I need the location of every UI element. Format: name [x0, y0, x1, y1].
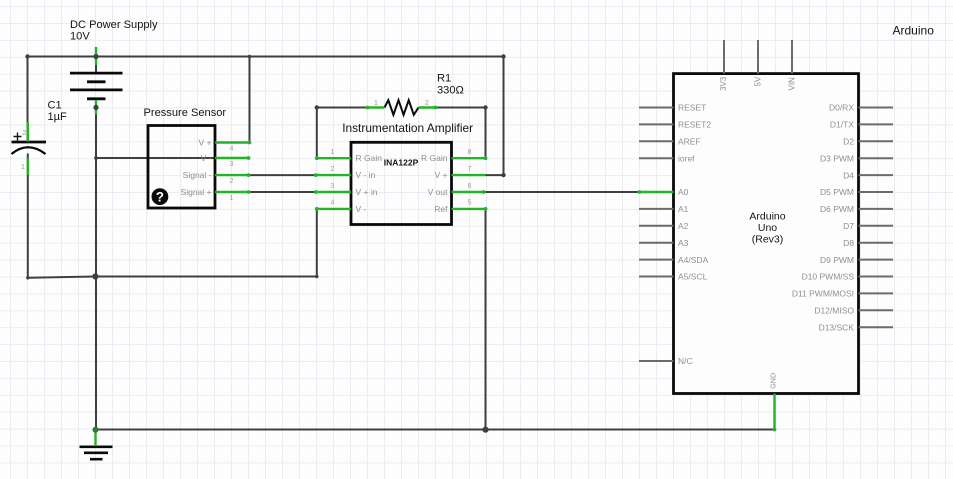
- arduino GND end dot: [773, 428, 777, 432]
- battery label DC Power Supply 10V: [70, 19, 158, 42]
- amp left pin labels: [356, 153, 383, 214]
- svg-text:A5/SCL: A5/SCL: [678, 272, 708, 282]
- svg-text:Ref: Ref: [434, 204, 448, 214]
- svg-text:Signal -: Signal -: [183, 170, 212, 180]
- svg-text:4: 4: [331, 200, 335, 207]
- svg-text:Arduino: Arduino: [893, 24, 935, 38]
- svg-text:5: 5: [468, 200, 472, 207]
- wire battery bottom down to ground rail: [95, 100, 97, 430]
- wire top rail: [28, 56, 504, 58]
- svg-text:5V: 5V: [753, 76, 762, 86]
- junction dot battery bottom: [93, 105, 98, 110]
- sensor pin V- end dot: [247, 156, 251, 160]
- svg-text:D8: D8: [843, 238, 854, 248]
- amp pin 1 wire end dot: [315, 156, 319, 160]
- svg-text:RESET: RESET: [678, 103, 706, 113]
- sensor question icon: [152, 188, 169, 205]
- arduino top pin 5V: [757, 40, 759, 74]
- svg-text:Instrumentation Amplifier: Instrumentation Amplifier: [342, 121, 473, 135]
- svg-text:8: 8: [468, 149, 472, 156]
- wire amp Ref down to ground rail: [485, 209, 487, 430]
- svg-text:ioref: ioref: [678, 153, 695, 163]
- wire sensor Signal- to amp V-in: [249, 174, 316, 176]
- svg-text:2: 2: [23, 130, 27, 137]
- svg-text:D0/RX: D0/RX: [829, 103, 854, 113]
- amp pin 8 wire end dot: [484, 156, 488, 160]
- svg-text:D13/SCK: D13/SCK: [819, 322, 855, 332]
- amp pin 5 green: [452, 208, 486, 210]
- svg-text:1µF: 1µF: [48, 111, 68, 123]
- ground pin green: [94, 431, 96, 447]
- svg-text:6: 6: [468, 183, 472, 190]
- capacitor C1 bottom arc: [12, 147, 46, 154]
- svg-text:3: 3: [331, 183, 335, 190]
- amp pin 4 green: [316, 208, 352, 210]
- svg-text:A1: A1: [678, 204, 689, 214]
- svg-text:D3 PWM: D3 PWM: [820, 153, 854, 163]
- wire resistor right to amp pin 8: [485, 108, 487, 159]
- amp right pin labels: [421, 153, 448, 214]
- junction dot top-left corner: [25, 54, 29, 58]
- sensor pin numbers: [230, 146, 234, 203]
- sensor V+ wire end dot: [248, 141, 252, 145]
- amp pin 8 green: [452, 157, 486, 159]
- resistor pin 1 end dot: [366, 106, 370, 110]
- svg-text:A2: A2: [678, 221, 689, 231]
- ground symbol: [80, 447, 113, 459]
- wire amp V out to arduino A0: [484, 191, 640, 193]
- battery pin green bottom: [95, 100, 97, 115]
- wire ground rail: [96, 429, 775, 431]
- capacitor label C1 1uF: [48, 100, 68, 124]
- svg-text:D4: D4: [843, 170, 854, 180]
- resistor pin 2 end dot: [434, 106, 438, 110]
- svg-text:Pressure Sensor: Pressure Sensor: [144, 107, 227, 119]
- amp pin 5 wire end dot: [484, 207, 488, 211]
- resistor R1 zigzag: [385, 100, 419, 115]
- arduino right pin stubs: [859, 108, 894, 328]
- amp pin 2 green: [316, 174, 352, 176]
- sensor pin Signal+ end dot: [247, 190, 251, 194]
- junction dot resistor right: [483, 105, 487, 109]
- svg-text:A3: A3: [678, 238, 689, 248]
- svg-text:D1/TX: D1/TX: [830, 120, 854, 130]
- svg-text:V out: V out: [428, 187, 448, 197]
- svg-text:C1: C1: [48, 100, 62, 112]
- amp pin 1 green: [316, 157, 352, 159]
- svg-text:3: 3: [230, 161, 234, 168]
- svg-text:N/C: N/C: [678, 356, 693, 366]
- junction dot C1 bottom bend: [26, 276, 29, 279]
- svg-text:D10 PWM/SS: D10 PWM/SS: [802, 272, 855, 282]
- battery pin green top: [95, 47, 97, 65]
- svg-text:7: 7: [468, 166, 472, 173]
- wire battery top pin: [95, 47, 97, 73]
- svg-text:?: ?: [156, 189, 164, 204]
- svg-text:D12/MISO: D12/MISO: [814, 306, 854, 316]
- pressure sensor box: [148, 126, 215, 209]
- arduino right pin labels: [792, 103, 855, 333]
- amp pin 4 wire end dot: [315, 207, 319, 211]
- arduino center label: [749, 211, 785, 246]
- wire top rail to sensor V+: [249, 57, 251, 143]
- amp pin 3 end dot: [314, 190, 318, 194]
- svg-text:R Gain: R Gain: [421, 153, 448, 163]
- wire battery to sensor V-: [96, 157, 249, 159]
- amp pin 7 green: [452, 174, 486, 176]
- junction dot amp V- bend: [315, 275, 318, 278]
- svg-text:(Rev3): (Rev3): [752, 234, 784, 246]
- svg-text:4: 4: [230, 146, 234, 153]
- sensor pin labels: [181, 138, 212, 198]
- capacitor pin green bottom: [27, 159, 29, 176]
- arduino GND pin green: [773, 394, 775, 430]
- amp pin 6 end dot: [482, 190, 486, 194]
- svg-text:AREF: AREF: [678, 137, 701, 147]
- wire vertical up to amp pin 4: [316, 209, 318, 277]
- wire resistor left lead: [317, 107, 368, 109]
- junction dot ref ground: [482, 427, 488, 433]
- svg-text:D2: D2: [843, 137, 854, 147]
- sensor pin V+ green: [215, 141, 250, 143]
- amp pin 6 green: [452, 191, 484, 193]
- arduino pin A0 end dot: [638, 190, 642, 194]
- amp pin 2 end dot: [314, 173, 318, 177]
- svg-text:R Gain: R Gain: [356, 153, 383, 163]
- svg-text:330Ω: 330Ω: [437, 85, 464, 97]
- svg-text:2: 2: [425, 100, 429, 107]
- sensor pin Signal- end dot: [247, 173, 251, 177]
- svg-text:Uno: Uno: [758, 222, 777, 234]
- svg-text:Arduino: Arduino: [749, 211, 785, 223]
- wire resistor left to amp pin 1: [316, 108, 318, 159]
- junction dot ground rail left: [93, 427, 99, 433]
- svg-text:1: 1: [21, 164, 25, 171]
- svg-text:2: 2: [230, 178, 234, 185]
- svg-text:V +: V +: [435, 170, 448, 180]
- svg-text:RESET2: RESET2: [678, 120, 711, 130]
- svg-text:1: 1: [230, 195, 234, 202]
- arduino box: [674, 74, 859, 394]
- svg-text:V -: V -: [201, 153, 212, 163]
- svg-text:INA122P: INA122P: [384, 158, 419, 168]
- instrumentation amplifier box U1: [351, 142, 452, 224]
- junction dot battery V- branch: [94, 156, 98, 160]
- wire C1 bottom to battery ground wire: [28, 277, 96, 278]
- arduino top pin 3V3: [723, 40, 725, 74]
- svg-text:V -: V -: [356, 204, 367, 214]
- svg-text:D11 PWM/MOSI: D11 PWM/MOSI: [792, 289, 854, 299]
- svg-text:DC Power Supply: DC Power Supply: [70, 19, 158, 31]
- junction dot resistor left: [315, 105, 319, 109]
- junction dot amp V+ elbow: [501, 173, 505, 177]
- amp pin numbers right: [468, 149, 472, 207]
- capacitor pin green top: [27, 122, 29, 142]
- wire left vertical upper (to C1): [27, 56, 29, 142]
- resistor pin 1 green: [367, 106, 385, 108]
- capacitor plus sign: [14, 133, 22, 141]
- junction dot top rail right corner: [501, 54, 505, 58]
- wire bottom horizontal to amp V-: [95, 276, 316, 278]
- sensor pin V- green: [215, 157, 249, 159]
- sensor pin Signal- green: [215, 174, 249, 176]
- amp pin 3 green: [316, 191, 352, 193]
- svg-text:V +: V +: [199, 138, 212, 148]
- svg-text:D9 PWM: D9 PWM: [820, 255, 854, 265]
- arduino pin A0 green: [639, 191, 674, 193]
- svg-text:2: 2: [331, 166, 335, 173]
- svg-text:V - in: V - in: [356, 170, 376, 180]
- capacitor C1 top plate: [12, 141, 47, 144]
- svg-text:10V: 10V: [70, 30, 90, 42]
- svg-text:A4/SDA: A4/SDA: [678, 255, 709, 265]
- arduino left pin stubs: [639, 108, 674, 362]
- sensor pin Signal+ green: [215, 191, 249, 193]
- wire top rail down to amp V+ pin 7: [503, 57, 505, 176]
- svg-text:1: 1: [331, 149, 335, 156]
- wire resistor right lead: [435, 107, 486, 109]
- resistor pin 2 green: [419, 106, 437, 108]
- svg-text:D5 PWM: D5 PWM: [820, 187, 854, 197]
- junction dot battery top: [93, 54, 98, 59]
- svg-text:VIN: VIN: [787, 77, 796, 91]
- svg-text:1: 1: [374, 100, 378, 107]
- svg-text:GND: GND: [768, 373, 777, 389]
- svg-text:A0: A0: [678, 187, 689, 197]
- amp pin numbers left: [331, 149, 335, 207]
- svg-text:Signal +: Signal +: [181, 187, 212, 197]
- wire sensor Signal+ to amp V+in: [249, 191, 316, 193]
- svg-text:D6 PWM: D6 PWM: [820, 204, 854, 214]
- svg-text:D7: D7: [843, 221, 854, 231]
- resistor R1 label: [437, 73, 464, 97]
- svg-text:V + in: V + in: [356, 187, 378, 197]
- arduino top pin labels rotated: [719, 76, 797, 91]
- wire left vertical lower (C1 to bend): [27, 154, 29, 278]
- svg-text:R1: R1: [437, 73, 451, 85]
- junction dot ground wire mid: [92, 273, 98, 279]
- battery B1 plates: [70, 73, 123, 99]
- junction dot sensor V+ branch: [248, 55, 252, 59]
- wire elbow to amp pin 7: [486, 174, 504, 176]
- arduino left pin labels: [678, 103, 711, 367]
- arduino top pin VIN: [791, 40, 793, 74]
- svg-text:3V3: 3V3: [719, 76, 728, 91]
